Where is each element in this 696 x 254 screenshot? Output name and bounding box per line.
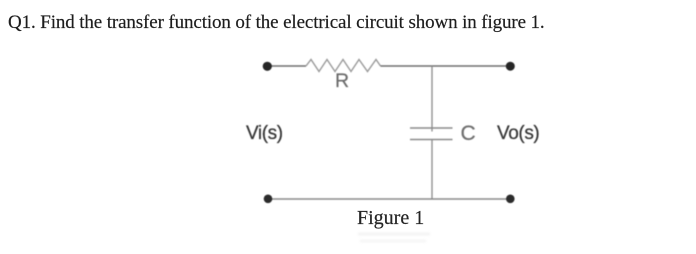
capacitor C bottom plate	[410, 139, 453, 141]
node top-right	[506, 62, 515, 71]
capacitor C top plate	[410, 127, 453, 129]
label C	[461, 122, 476, 146]
figure caption	[357, 207, 424, 230]
label R	[335, 70, 349, 93]
label Vi(s)	[246, 123, 283, 145]
wire bottom	[268, 198, 510, 200]
node bottom-left	[264, 195, 273, 204]
node top-left	[263, 62, 272, 71]
faint cropped text remnant at bottom	[358, 233, 430, 235]
wire top-right (resistor to right node)	[381, 65, 511, 67]
label Vo(s)	[497, 123, 539, 145]
wire capacitor branch upper	[431, 66, 433, 132]
wire top-left (node to resistor)	[267, 65, 306, 67]
question text	[8, 12, 545, 34]
wire capacitor branch lower	[431, 140, 433, 199]
resistor R	[306, 60, 381, 72]
node bottom-right	[506, 195, 515, 204]
